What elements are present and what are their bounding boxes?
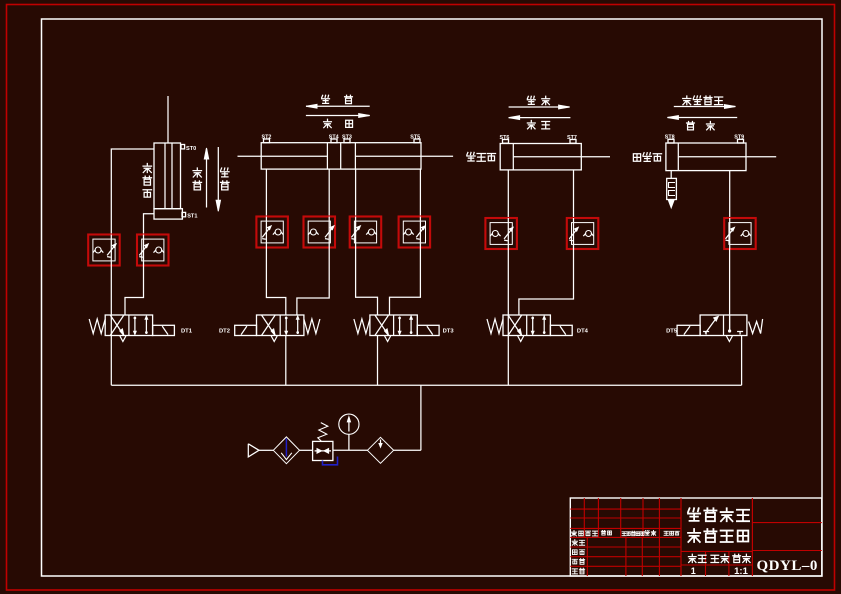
one-way throttle valve V7 (red box) (485, 218, 517, 249)
pressure gauge (339, 414, 359, 434)
clamp cylinder body (500, 144, 581, 170)
arrow line 后退 (left) (667, 117, 737, 119)
arrow line 松开 (left) (509, 117, 571, 119)
clamp cylinder piston line (512, 144, 514, 170)
wire lubricator to riser (394, 449, 421, 451)
svg-text:DT3: DT3 (443, 329, 455, 335)
one-way throttle valve V8 (red box) (567, 218, 599, 249)
travel cylinder piston line (677, 143, 679, 171)
feed cylinder rod left (238, 155, 328, 157)
sensor ST8 (668, 139, 674, 143)
solenoid valve DF1 (4/2, spring left) (105, 315, 152, 336)
label 夹紧 (527, 96, 535, 104)
header 签名 (645, 530, 649, 535)
arrow line 走刀 (left) (306, 105, 370, 107)
drawing number cell lines (752, 522, 821, 524)
wire V3 down jog to valve DF2 port A (266, 248, 285, 316)
one-way throttle valve V2 (red box) (137, 235, 169, 266)
title 动原理图 (688, 529, 700, 542)
wire feed-cyl port2 to throttle V4 (328, 169, 330, 216)
header 标记 (571, 531, 576, 536)
wire V6 down jog to valve DF3 port B (390, 248, 421, 316)
title block vertical red lines lower (586, 537, 588, 576)
title block outer white frame (570, 498, 822, 576)
clamp cylinder rod (513, 156, 610, 158)
row label 设计 (572, 540, 577, 546)
label 落刀 vertical (221, 168, 229, 177)
svg-text:DT5: DT5 (666, 329, 678, 335)
svg-text:DT2: DT2 (219, 329, 230, 335)
title 切割机气 (688, 508, 700, 521)
sensor ST6 (503, 140, 509, 144)
wire lift-cyl top port to throttle V1 (111, 149, 154, 235)
svg-text:ST6: ST6 (500, 135, 510, 141)
wire V8 down jog to valve DF4 port B (519, 249, 574, 315)
title block vertical red lines upper (583, 498, 585, 537)
title block horizontal red lines (570, 508, 681, 510)
arrow line 退回 (right) (306, 115, 370, 117)
one-way throttle valve V3 (red box) (256, 217, 288, 248)
feed cylinder rod right (355, 155, 453, 157)
one-way throttle valve V9 (red box) (724, 218, 756, 249)
wire lift-cyl bottom port to throttle V2 (144, 214, 155, 235)
wire V5 down jog to valve DF3 port A (356, 248, 378, 316)
wire feed-cyl port1 to throttle V3 (265, 169, 267, 216)
label 松开 (527, 120, 535, 128)
wire feed-cyl port3 to throttle V5 (355, 169, 357, 216)
feed cylinder body (261, 143, 421, 169)
sensor ST0 on lift cylinder (181, 145, 185, 149)
wire filter to regulator (300, 449, 313, 451)
feed cylinder piston lines (326, 143, 328, 169)
label 走刀 (322, 95, 330, 103)
lift cylinder 抬刀缸 body (154, 143, 181, 209)
wire regulator to lubricator (333, 449, 368, 451)
travel cylinder body (666, 143, 746, 171)
wire travel port-left to muffler (670, 171, 672, 179)
label 夹紧缸 (467, 152, 475, 161)
row label 审核 (572, 559, 577, 564)
one-way throttle valve V5 (red box) (350, 217, 382, 248)
filter bottom v (281, 453, 292, 460)
regulator internal arrows (315, 450, 331, 452)
svg-text:ST8: ST8 (665, 135, 675, 141)
wire V4 down jog to valve DF2 port B (297, 248, 329, 316)
wire V9 down to valve DF5 (729, 249, 731, 331)
sensor ST9 (738, 139, 744, 143)
wire clamp port2 to throttle V8 (573, 170, 575, 218)
svg-text:ST5: ST5 (410, 134, 420, 140)
regulator spring (318, 423, 328, 442)
svg-text:1: 1 (691, 566, 696, 576)
label 退回 (324, 119, 332, 127)
lift cylinder internal rod lines (164, 143, 166, 209)
header 更改文件号 (622, 532, 626, 536)
title block divider to title area (680, 498, 682, 576)
travel cylinder rod (678, 156, 776, 158)
svg-text:ST1: ST1 (187, 214, 197, 220)
pressure regulator box (313, 441, 333, 460)
sensor ST7 (570, 140, 576, 144)
lift cylinder bottom cap (154, 209, 182, 219)
header 年月日 (664, 531, 668, 535)
svg-text:QDYL–0: QDYL–0 (757, 558, 818, 574)
wire feed-cyl port4 to throttle V6 (419, 169, 421, 216)
label 行走缸 (633, 154, 640, 161)
solenoid valve DF5 (3/2) (700, 315, 747, 336)
air source triangle (248, 444, 259, 457)
wire V1 out down to valve DF1 and supply bus (110, 266, 112, 386)
wire V2 out jog to valve DF1 port B (125, 266, 144, 316)
muffler under travel cylinder (667, 178, 677, 199)
wire travel port-right to throttle V9 (729, 171, 731, 218)
one-way throttle valve V6 (red box) (399, 217, 431, 248)
svg-text:ST7: ST7 (567, 135, 577, 141)
solenoid valve DF2 (4/2, solenoid left) (257, 315, 304, 336)
svg-text:DT4: DT4 (577, 329, 589, 335)
label 数量 (688, 554, 696, 562)
svg-text:ST4: ST4 (329, 134, 339, 140)
one-way throttle valve V4 (red box) (304, 217, 336, 248)
label 脉动前进 (683, 96, 691, 105)
label 抬刀缸 vertical (143, 164, 151, 173)
supply bus line (111, 384, 741, 386)
svg-text:ST3: ST3 (342, 134, 352, 140)
sensor ST2 (264, 139, 270, 143)
down arrow line 落刀 (217, 147, 219, 210)
bus riser to FRL (420, 385, 422, 450)
row label 制图 (572, 550, 577, 555)
title block divider to drawing-number area (751, 498, 753, 576)
svg-text:DT1: DT1 (181, 329, 193, 335)
lubricator drip arrow (380, 440, 382, 445)
sensor ST4 (331, 139, 337, 143)
svg-text:ST9: ST9 (734, 135, 744, 141)
arrow line 夹紧 (right) (509, 106, 570, 108)
gauge needle (348, 421, 350, 432)
filter blue element (285, 439, 287, 457)
label 比例 (733, 554, 741, 562)
regulator blue drain (323, 457, 338, 465)
one-way throttle valve V1 (red box) (88, 235, 120, 266)
wire valve DF3 to supply bus (377, 336, 379, 386)
solenoid valve DF4 (4/2, spring left) (503, 315, 550, 336)
svg-text:1:1: 1:1 (734, 566, 748, 577)
sensor ST5 (414, 139, 420, 143)
filter diamond (273, 437, 299, 464)
lift cylinder rod (top) (167, 96, 169, 143)
wire clamp port1 to throttle V7 (507, 170, 509, 218)
header 分区 (601, 530, 605, 535)
wire valve DF2 to supply bus (285, 336, 287, 386)
wire V7 down through valve DF4 to bus (507, 249, 509, 385)
label 重量 (711, 555, 719, 562)
up arrow line 抬刀 (206, 149, 208, 208)
label 后退 (687, 121, 695, 129)
svg-text:ST2: ST2 (262, 134, 272, 140)
qty/weight/scale row lines (681, 550, 752, 552)
label 抬刀 vertical (193, 168, 201, 177)
lubricator diamond (367, 437, 393, 463)
sensor ST1 on lift cylinder (182, 212, 186, 216)
wire source to filter (259, 449, 273, 451)
header 处数 (585, 531, 590, 535)
arrow line 脉动前进 (right) (674, 106, 736, 108)
row label 工艺 (572, 569, 577, 574)
svg-text:ST0: ST0 (186, 146, 196, 152)
solenoid valve DF3 (4/2, spring left) (370, 315, 417, 336)
wire valve DF5 out to supply bus (741, 336, 743, 386)
sensor ST3 (344, 139, 350, 143)
